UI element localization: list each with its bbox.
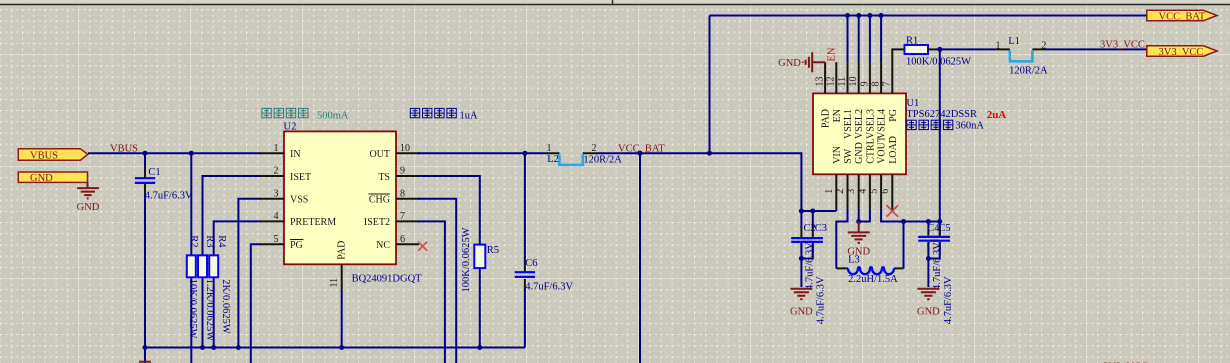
value 4.7uF/6.3V (C5) — [943, 276, 954, 324]
part number BQ24091DGQT — [352, 273, 423, 284]
pin 7 (ISET2) U2 — [364, 211, 420, 228]
svg-text:5: 5 — [869, 189, 880, 194]
power ground symbol at U1 PAD (pin13) — [803, 52, 825, 72]
svg-text:R4: R4 — [216, 235, 227, 248]
wire L1 to 3V3_VCC port — [1044, 48, 1146, 50]
svg-text:360nA: 360nA — [955, 120, 984, 131]
pin number 1 (L1) — [996, 40, 1001, 51]
value 4.7uF/6.3V (C2) — [805, 242, 816, 290]
svg-text:GND: GND — [847, 247, 870, 258]
junction C4/C5 bottom — [926, 256, 931, 261]
svg-text:C6: C6 — [525, 258, 537, 269]
svg-text:120R/2A: 120R/2A — [1009, 66, 1048, 77]
ground label GND (U1) — [847, 247, 870, 258]
wire vertical to top rail — [709, 16, 711, 154]
svg-text:L1: L1 — [1008, 36, 1020, 47]
svg-text:3V3_VCC: 3V3_VCC — [1100, 39, 1145, 50]
top rail wire VCC_BAT — [710, 15, 1147, 17]
wire branch down at x=640 — [639, 153, 641, 363]
svg-text:6: 6 — [880, 189, 891, 194]
port VCC_BAT — [1147, 10, 1217, 22]
svg-text:ISET: ISET — [290, 172, 311, 183]
svg-text:4: 4 — [857, 189, 868, 194]
label R4 — [216, 235, 227, 248]
pin 4 (PRETERM) U2 — [260, 211, 336, 228]
svg-text:1uA: 1uA — [460, 110, 479, 121]
svg-text:U1: U1 — [906, 98, 919, 109]
cropped net label at bottom edge — [1103, 362, 1148, 363]
svg-text:3: 3 — [274, 188, 279, 199]
svg-text:3V3_VCC: 3V3_VCC — [1159, 47, 1204, 58]
junction on VBUS at R2 — [189, 151, 194, 156]
note: charge current 500mA (teal) — [262, 108, 349, 121]
bottom GND bus wire — [145, 347, 525, 349]
wire VOUT row to C5 — [904, 221, 940, 223]
label L3 — [848, 255, 860, 266]
svg-text:2.2uH/1.5A: 2.2uH/1.5A — [848, 274, 898, 285]
value 2.2uH/1.5A (L3) — [848, 274, 898, 285]
wire riser to top rail x=881.1 — [879, 13, 884, 62]
svg-text:R5: R5 — [487, 245, 499, 256]
pin 4 (CTRL) U1 bottom — [857, 138, 876, 209]
junction on bus at x=202.5 — [200, 345, 205, 350]
junction on bus at x=213.7 — [211, 345, 216, 350]
ground symbol below C2/C3 — [790, 289, 812, 300]
svg-text:VBUS: VBUS — [30, 150, 58, 161]
wire PG down past bus — [251, 244, 261, 363]
svg-text:8: 8 — [871, 82, 882, 87]
wire VCC_BAT to U1 VIN / C2 C3 — [710, 153, 837, 211]
part number TPS62742DSSR — [906, 109, 977, 120]
svg-text:TS: TS — [378, 172, 390, 183]
svg-text:PAD: PAD — [337, 241, 348, 260]
ground stub below C1 at sheet edge — [139, 361, 151, 363]
svg-text:PG: PG — [290, 240, 303, 251]
junction C5 top — [937, 219, 942, 224]
svg-text:100K/0.0625W: 100K/0.0625W — [461, 227, 472, 292]
ground symbol below U1 GND pin — [848, 222, 870, 243]
resistor R4 — [209, 221, 261, 347]
net label 3V3_VCC — [1100, 39, 1145, 50]
svg-text:SW: SW — [843, 148, 854, 164]
op-amp U1 body (TPS62742DSSR regulator) — [813, 93, 906, 174]
inductor L2 (ferrite bead) — [548, 153, 596, 165]
svg-text:1: 1 — [547, 143, 552, 154]
svg-text:4: 4 — [274, 211, 279, 222]
svg-text:CHG: CHG — [369, 195, 390, 206]
resistor R2 — [187, 153, 196, 363]
label L1 — [1008, 36, 1020, 47]
pin 5 (PG) U2 — [260, 234, 303, 251]
svg-text:C5: C5 — [938, 223, 950, 234]
svg-text:PG: PG — [888, 109, 899, 122]
svg-text:U2: U2 — [284, 121, 297, 132]
svg-text:500mA: 500mA — [317, 110, 349, 121]
port GND — [18, 172, 87, 184]
wire VOUT to C4/C5 — [881, 209, 903, 222]
resistor R3 — [198, 176, 261, 348]
value 120R/2A (L1) — [1009, 66, 1048, 77]
svg-text:C1: C1 — [148, 167, 160, 178]
pin 6 (LOAD) U1 bottom — [880, 136, 899, 211]
svg-text:4.7uF/6.3V: 4.7uF/6.3V — [525, 282, 573, 293]
value 4.7uF/6.3V (C1) — [145, 191, 193, 202]
label C6 — [525, 258, 537, 269]
svg-text:TPS62742DSSR: TPS62742DSSR — [906, 109, 977, 120]
svg-text:12: 12 — [826, 77, 837, 87]
junction at x=640 — [638, 151, 643, 156]
wire GND pin down — [858, 209, 860, 222]
pin 2 (ISET) U2 — [260, 166, 311, 183]
svg-text:VSEL1: VSEL1 — [843, 109, 854, 139]
svg-text:4.7uF/6.3V: 4.7uF/6.3V — [145, 191, 193, 202]
label U2 — [284, 121, 297, 132]
svg-text:1: 1 — [274, 143, 279, 154]
junction C3 top — [810, 209, 815, 214]
svg-text:11: 11 — [837, 77, 848, 87]
wire R1 junction down to C5 — [939, 49, 941, 236]
junction C4 top — [926, 219, 931, 224]
junction below R1 — [937, 47, 942, 52]
pin 8 (VSEL4) U1 top — [871, 62, 888, 139]
svg-text:2: 2 — [274, 166, 279, 177]
inductor L3 — [836, 267, 903, 274]
value 4.7uF/6.3V (C3) — [815, 276, 826, 324]
no-connect X on U2 pin 6 (NC) — [418, 242, 427, 251]
wire CTRL jog to GND — [859, 209, 870, 222]
no-connect X on U1 pin 6 (LOAD) — [887, 205, 899, 217]
wire TS to R5 — [418, 176, 480, 245]
svg-text:VOUT: VOUT — [877, 136, 888, 164]
svg-text:9: 9 — [400, 166, 405, 177]
svg-text:VSEL2: VSEL2 — [854, 109, 865, 139]
svg-text:IN: IN — [290, 149, 301, 160]
svg-text:GND: GND — [790, 307, 813, 318]
capacitor C3 — [801, 211, 823, 259]
svg-text:EN: EN — [832, 109, 843, 122]
svg-text:9: 9 — [859, 82, 870, 87]
wire VSS to bottom bus — [238, 199, 261, 348]
pin 11 (PAD) U2 — [329, 241, 348, 348]
wire L2 to VCC_BAT junction — [595, 152, 710, 154]
label U1 — [906, 98, 919, 109]
svg-text:VIN: VIN — [832, 146, 843, 164]
capacitor C1 — [135, 153, 155, 363]
pin 2 (SW) U1 bottom — [835, 148, 854, 209]
svg-text:10K/0.0625W: 10K/0.0625W — [187, 279, 198, 339]
capacitor C5 — [928, 227, 950, 259]
junction at C6 — [522, 151, 527, 156]
ground symbol below GND port — [77, 182, 99, 198]
svg-text:100K/0.0625W: 100K/0.0625W — [906, 57, 971, 68]
pin 6 (NC) U2 — [376, 234, 419, 251]
value 10K/0.0625W (R2) — [187, 279, 198, 339]
pin 1 (VIN) U1 bottom — [824, 146, 843, 209]
svg-text:6: 6 — [400, 234, 405, 245]
svg-text:CTRL: CTRL — [865, 138, 876, 164]
svg-text:13: 13 — [815, 77, 826, 87]
svg-text:1: 1 — [824, 189, 835, 194]
svg-text:120R/2A: 120R/2A — [583, 155, 622, 166]
ground label GND (U1 PAD) — [778, 58, 801, 69]
svg-text:VBUS: VBUS — [110, 144, 138, 155]
label C4 — [927, 223, 940, 234]
svg-text:GND: GND — [778, 58, 801, 69]
svg-text:2: 2 — [835, 189, 846, 194]
junction on bus at x=238.4 — [236, 345, 241, 350]
junction on bus at x=145 — [143, 345, 148, 350]
pin 1 (IN) U2 — [260, 143, 301, 160]
svg-text:4.7uF/6.3V: 4.7uF/6.3V — [932, 242, 943, 290]
net label EN (red, rotated) — [827, 47, 838, 61]
note: sleep current 1uA (navy) — [410, 108, 478, 121]
ground label GND (below C4/C5) — [917, 307, 940, 318]
pin 5 (VOUT) U1 bottom — [869, 136, 888, 209]
wire VBUS from port to U2 pin IN — [88, 152, 261, 154]
pin 13 (PAD) U1 top — [815, 62, 832, 128]
label R3 — [204, 235, 215, 247]
net label VCC_BAT — [618, 144, 665, 155]
op-amp U2 body (BQ24091DGQT charger IC) — [284, 131, 396, 264]
pin number 2 (L1) — [1041, 40, 1046, 51]
svg-text:GND: GND — [917, 307, 940, 318]
svg-text:LOAD: LOAD — [888, 136, 899, 164]
value 100K/0.0625W (R5) — [461, 227, 472, 292]
pin 7 (PG) U1 top — [882, 49, 905, 121]
capacitor C2 — [791, 211, 811, 287]
svg-text:VSEL4: VSEL4 — [877, 109, 888, 139]
value 1.2K/0.0625W (R3) — [204, 279, 215, 342]
svg-text:PAD: PAD — [821, 109, 832, 128]
sheet border — [0, 0, 1230, 5]
value 120R/2A (L2) — [583, 155, 622, 166]
label C2 — [804, 223, 816, 234]
wire SW jog to L3 — [836, 209, 847, 269]
port 3V3_VCC — [1147, 46, 1217, 58]
value 4.7uF/6.3V (C4) — [932, 242, 943, 290]
svg-text:L2: L2 — [547, 154, 559, 165]
svg-text:R2: R2 — [188, 235, 199, 247]
label L2 — [547, 154, 559, 165]
pin 8 (CHG) U2 — [369, 188, 421, 205]
pin 11 (VSEL1) U1 top — [837, 62, 854, 139]
label C5 — [938, 223, 950, 234]
junction on bus at x=341.7 — [339, 345, 344, 350]
pin 3 (GND) U1 bottom — [846, 142, 865, 209]
svg-text:11: 11 — [329, 278, 340, 288]
resistor R1 — [905, 45, 997, 54]
pin 12 (EN) U1 top — [826, 62, 843, 122]
svg-text:BQ24091DGQT: BQ24091DGQT — [352, 273, 423, 284]
wire OUT to L2 — [418, 152, 548, 154]
value 2K/0.0625W (R4) — [220, 279, 231, 334]
svg-text:10: 10 — [400, 143, 410, 154]
pin 10 (VSEL2) U1 top — [848, 62, 865, 139]
svg-text:GND: GND — [854, 142, 865, 164]
ground symbol below C4/C5 — [917, 289, 939, 300]
svg-text:4.7uF/6.3V: 4.7uF/6.3V — [805, 242, 816, 290]
wire VIN stub — [835, 209, 837, 211]
svg-text:GND: GND — [30, 173, 53, 184]
svg-text:GND: GND — [77, 202, 100, 213]
junction GND/CTRL — [856, 219, 861, 224]
note: sleep current 360nA — [907, 120, 985, 131]
svg-text:5: 5 — [274, 234, 279, 245]
wire riser to top rail x=858.7 — [856, 13, 861, 62]
svg-text:10: 10 — [848, 77, 859, 87]
svg-text:7: 7 — [400, 211, 405, 222]
junction VOUT/L3 — [901, 219, 906, 224]
note 2uA (red) — [987, 109, 1007, 121]
capacitor C4 — [918, 222, 938, 288]
svg-text:NC: NC — [376, 240, 390, 251]
wire riser to top rail x=847.5 — [845, 13, 850, 62]
wire ISET2 down past bus — [418, 221, 445, 363]
wire riser to top rail x=869.9 — [867, 13, 872, 62]
svg-text:2K/0.0625W: 2K/0.0625W — [220, 279, 231, 334]
pin 9 (TS) U2 — [378, 166, 420, 183]
inductor L1 (ferrite bead) — [996, 49, 1044, 61]
svg-text:2: 2 — [592, 143, 597, 154]
svg-text:3: 3 — [846, 189, 857, 194]
svg-text:VSEL3: VSEL3 — [865, 109, 876, 139]
label R2 — [188, 235, 199, 247]
port VBUS — [18, 149, 88, 162]
svg-text:PRETERM: PRETERM — [290, 217, 336, 228]
svg-text:4.7uF/6.3V: 4.7uF/6.3V — [943, 276, 954, 324]
junction C2 top — [799, 209, 804, 214]
junction C2/C3 bottom — [799, 256, 804, 261]
pin number 2 (L2) — [592, 143, 597, 154]
svg-text:VSS: VSS — [290, 195, 308, 206]
label R1 — [906, 35, 918, 46]
wire L3 right up — [903, 222, 905, 269]
svg-text:7: 7 — [882, 82, 893, 87]
resistor R5 — [474, 245, 485, 348]
svg-text:4.7uF/6.3V: 4.7uF/6.3V — [815, 276, 826, 324]
net label VBUS — [110, 144, 138, 155]
ground label GND (port) — [77, 202, 100, 213]
svg-text:R1: R1 — [906, 35, 918, 46]
svg-text:VCC_BAT: VCC_BAT — [1159, 11, 1206, 22]
svg-text:C3: C3 — [815, 223, 827, 234]
capacitor C6 — [515, 153, 535, 347]
wire CHG down past bus — [418, 199, 456, 363]
junction VCC_BAT vertical — [707, 151, 712, 156]
svg-text:ISET2: ISET2 — [364, 217, 390, 228]
pin number 1 (L2) — [547, 143, 552, 154]
value 100K/0.0625W (R1) — [906, 57, 971, 68]
svg-text:1: 1 — [996, 40, 1001, 51]
svg-text:2uA: 2uA — [987, 109, 1007, 121]
label C3 — [815, 223, 827, 234]
junction on VBUS at C1 — [143, 151, 148, 156]
svg-text:OUT: OUT — [369, 149, 390, 160]
pin 9 (VSEL3) U1 top — [859, 62, 876, 139]
value 4.7uF/6.3V (C6) — [525, 282, 573, 293]
pin 3 (VSS) U2 — [260, 188, 308, 205]
svg-text:EN: EN — [827, 47, 838, 61]
ground label GND (below C2/C3) — [790, 307, 813, 318]
pin 10 (OUT) U2 — [369, 143, 420, 160]
label R5 — [487, 245, 499, 256]
svg-text:8: 8 — [400, 188, 405, 199]
label C1 — [148, 167, 160, 178]
junction on bus at x=479.8 — [477, 345, 482, 350]
